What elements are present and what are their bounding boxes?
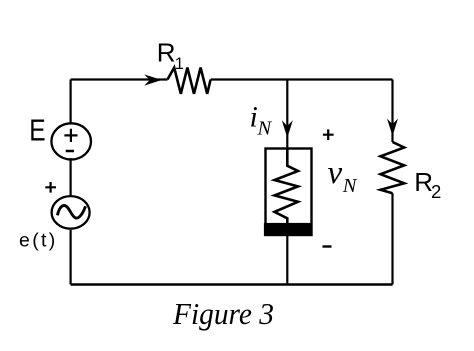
current arrow i_N (282, 120, 293, 138)
label E (29, 114, 45, 148)
current arrow on top wire (144, 74, 162, 85)
svg-text:v: v (328, 155, 343, 191)
wire middle branch lower (box N to bottom wire) (286, 236, 288, 285)
internal resistor of element N (275, 149, 299, 224)
plus polarity mark of v_N (323, 129, 334, 140)
caption Figure 3 (172, 297, 274, 331)
current arrow into R2 (387, 119, 398, 137)
wire left branch lower (e(t) to BL corner) (69, 230, 71, 285)
svg-text:R: R (157, 38, 176, 68)
resistor R2 (381, 142, 405, 193)
AC source e(t) (52, 196, 90, 229)
label R1 (157, 38, 184, 73)
label i_N (250, 100, 273, 139)
label R2 (414, 167, 441, 202)
resistor R1 (168, 68, 211, 94)
wire between E and e(t) sources (69, 158, 71, 196)
svg-text:e(t): e(t) (19, 230, 58, 252)
wire top-right segment (R1 to node TR) (211, 78, 393, 80)
wire right branch lower (R2 to BR corner) (391, 193, 393, 284)
svg-text:2: 2 (431, 181, 441, 202)
wire top-left segment (node TL to R1) (71, 78, 168, 80)
svg-text:E: E (29, 114, 45, 148)
wire left branch upper (TL corner down to E source) (69, 80, 71, 125)
svg-text:Figure 3: Figure 3 (172, 297, 274, 331)
filled bar at bottom of element N (264, 223, 313, 236)
voltage source E (circle with + -) (51, 123, 91, 159)
svg-text:1: 1 (175, 55, 184, 73)
bottom wire (71, 283, 393, 286)
box of nonlinear element N (266, 149, 312, 236)
svg-text:N: N (257, 117, 273, 139)
wire right branch upper (TR corner to R2) (391, 80, 393, 143)
label v_N (328, 155, 358, 197)
wire middle branch upper (top wire to box N) (286, 80, 288, 149)
label e(t) (19, 230, 58, 252)
plus polarity mark of e(t) (45, 182, 56, 193)
minus polarity mark of v_N (323, 245, 332, 247)
svg-text:N: N (342, 175, 358, 197)
